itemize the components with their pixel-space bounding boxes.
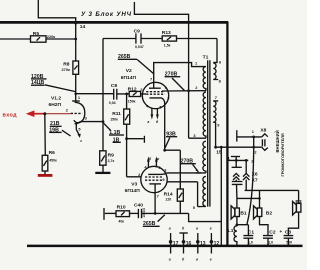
connector wire dots (235, 159, 238, 162)
svg-text:7: 7 (157, 194, 159, 199)
X6 plug chevrons (233, 173, 239, 181)
loudspeaker B1 (231, 206, 239, 219)
speaker cable curve from jack sleeve (247, 149, 254, 225)
node 15 dots (214, 146, 217, 149)
resistor R9 (100, 151, 106, 165)
wire: C40 to R14 column and to node line (142, 212, 189, 214)
svg-text:1,5к: 1,5к (164, 43, 171, 47)
T1 core (208, 60, 210, 206)
T1 primary winding section 3-4 (203, 141, 206, 173)
leader 93В to cathode node (165, 138, 170, 148)
svg-text:16: 16 (186, 241, 192, 247)
frame: right thick vertical (226, 22, 228, 247)
junction dot grid column (125, 137, 128, 140)
svg-text:150к: 150к (128, 100, 136, 104)
V3 pin3 wire to transformer tap 4 (167, 172, 201, 174)
V2 anode bar (149, 87, 161, 89)
wire: C3 to bus (287, 238, 289, 246)
V3 anode bar (148, 173, 160, 175)
voltage label 120В (31, 74, 47, 80)
frame: bottom thick bus (27, 245, 303, 248)
V2 anode wire to transformer pin 1 (154, 63, 201, 89)
capacitor C2 (263, 236, 273, 239)
connector wire (228, 159, 248, 161)
svg-text:R5: R5 (33, 31, 40, 37)
V3 heater pin arrows (144, 156, 161, 170)
double bars below X6 (232, 182, 243, 185)
wire: B+ line from top edge down to transformer tap 3 (134, 2, 188, 138)
V1 pin 5 heater diagonal arrow (76, 130, 79, 135)
wire: feedback column C9-line down through C8 wire to R9 (102, 39, 104, 151)
wire: feedback line down to secondary pin 6 (213, 39, 217, 63)
leader 270В to tap4 wire (193, 164, 199, 172)
X8 sleeve junction dot (252, 146, 255, 149)
resistor R5 (31, 36, 47, 42)
svg-text:В2: В2 (266, 211, 273, 217)
svg-text:13: 13 (200, 241, 206, 247)
T1 primary winding section 1-2 (203, 67, 206, 91)
wire: B3 to C3 (288, 212, 298, 235)
svg-text:C9: C9 (134, 29, 141, 35)
capacitor C9 (136, 33, 141, 43)
inductor L1 (234, 225, 237, 246)
X7 plug chevrons (243, 160, 249, 190)
svg-text:з: з (80, 139, 82, 143)
loudspeaker B3 (293, 201, 301, 215)
X8 tip junction dot (252, 136, 255, 139)
V1 envelope arc (75, 102, 85, 124)
red input arrow (26, 110, 35, 117)
junction dot C2/bus (267, 244, 270, 247)
svg-text:е: е (210, 227, 212, 231)
wire: R9 to ground (102, 165, 104, 172)
wire: R10 to C40 (130, 212, 139, 214)
svg-text:а: а (169, 257, 171, 261)
junction dot screen/B+ column (187, 89, 190, 92)
contact bar left of R10 (103, 208, 105, 220)
V3 cathode lead down to bias line (154, 184, 156, 214)
leader 265В to anode wire (137, 60, 154, 75)
voltage label 93В (166, 132, 177, 138)
contact bar (test point) (143, 136, 145, 143)
tube V1.2 (half of 6Н2П) (66, 95, 88, 143)
resistor R11 (124, 109, 130, 124)
junction dot C8/R12/R11 (125, 93, 128, 96)
svg-text:C3: C3 (285, 229, 292, 235)
wire: R14 to cathode bottom line (179, 201, 181, 213)
wire: R12 to V2 grid (141, 93, 146, 95)
voltage label 21В (50, 121, 62, 127)
svg-text:150к: 150к (110, 118, 118, 122)
T1 secondary winding section 6-8 (213, 63, 216, 80)
svg-text:T1: T1 (203, 54, 209, 60)
resistor R12 (129, 91, 140, 96)
svg-text:В1: В1 (240, 211, 247, 217)
wire: splitter junction down through R11 to V3 grid (126, 94, 128, 109)
resistor R6 (42, 155, 48, 171)
svg-text:R14: R14 (164, 191, 173, 197)
V2 screen wire to transformer pin 2 (162, 90, 201, 92)
bus: top horizontal thick line (0, 21, 228, 24)
tube V2 6П14П envelope (142, 82, 168, 108)
svg-text:ж: ж (156, 157, 160, 161)
svg-text:2,7к: 2,7к (108, 159, 115, 163)
wire: jack tip to sleeve column (253, 137, 255, 147)
red input wire to grid (46, 113, 71, 115)
svg-text:ВНЕШНИЙ: ВНЕШНИЙ (275, 130, 280, 152)
wire: B2 feed from rail A (259, 190, 261, 208)
svg-text:R12: R12 (128, 86, 137, 92)
V3 screen wire to transformer pin 5 (167, 182, 201, 207)
wire: C2 to bus (267, 238, 269, 246)
wire: node 15 column down to bottom bus (220, 147, 222, 246)
svg-text:270к: 270к (62, 67, 70, 72)
V1 cathode arc (74, 120, 81, 122)
svg-text:220к: 220к (47, 34, 55, 39)
T1 primary winding section 4-5 (203, 176, 206, 206)
svg-text:C2: C2 (269, 229, 276, 235)
V2 cathode (150, 98, 165, 104)
svg-text:У 3 Блок УНЧ: У 3 Блок УНЧ (81, 11, 132, 18)
svg-text:V3: V3 (131, 181, 137, 187)
svg-text:7: 7 (215, 95, 217, 100)
svg-text:120: 120 (165, 198, 171, 202)
wire: B3 feed from rail A (298, 190, 300, 203)
svg-text:C40: C40 (134, 202, 143, 208)
leader 265В to bias line (158, 215, 165, 222)
svg-text:а: а (147, 120, 149, 124)
node 14 junction dot (74, 21, 77, 24)
speaker rail B (237, 197, 260, 199)
svg-text:6П14П: 6П14П (121, 75, 137, 81)
wire: cathode node to R14 (165, 150, 181, 189)
X6 lower contact bar (232, 166, 242, 168)
capacitor C3 (284, 236, 294, 239)
wire: top-left entry from top edge to bus node 14 (38, 0, 75, 22)
svg-text:а: а (169, 227, 171, 231)
voltage label 19В (49, 127, 61, 133)
capacitor C1 (243, 236, 253, 239)
resistor R14 (177, 189, 183, 201)
V1 cathode lead down (75, 123, 77, 129)
junction dot cathode node (163, 149, 166, 152)
V3 cathode (149, 183, 161, 185)
voltage label 265В (lower) (143, 221, 160, 227)
X8 jack symbol (262, 134, 268, 151)
resistor R10 (116, 211, 130, 217)
svg-text:12: 12 (214, 241, 220, 247)
svg-text:L1: L1 (228, 228, 234, 234)
voltage label 1,1В (109, 130, 124, 136)
wire: B2 to C2 (260, 217, 269, 236)
svg-text:1000,0: 1000,0 (142, 208, 146, 218)
wire: R5 input line (0, 38, 76, 40)
svg-text:V2: V2 (126, 68, 132, 74)
wire: V1 cathode to R9 column (81, 121, 103, 123)
T1 primary winding section 2-3 (203, 92, 206, 138)
capacitor C40 (138, 209, 141, 218)
junction dot V3 cathode/bias line (154, 212, 157, 215)
wire: B1 to L1/C1 node (236, 217, 238, 225)
junction dot rail B / B2 feed (258, 197, 261, 200)
V3 grid rows (dashed) (145, 177, 164, 180)
leader from 14ЦВ to V1 anode (45, 85, 75, 92)
svg-text:500: 500 (286, 241, 292, 245)
resistor R13 (162, 36, 176, 41)
capacitor C8 coupling (114, 89, 117, 100)
V2 grid rows (dashed) (146, 92, 165, 95)
bus tap 13 (196, 227, 206, 262)
svg-text:6П14П: 6П14П (125, 188, 141, 194)
bus tap 17 (169, 227, 179, 262)
junction dot C3/bus (287, 244, 290, 247)
wire: bus to R8 (75, 22, 77, 61)
bus tap 12 (210, 227, 220, 262)
svg-text:C1: C1 (248, 229, 255, 235)
V3 anode lead to pin3 wire (160, 173, 166, 175)
svg-text:В3: В3 (295, 199, 302, 205)
svg-text:R10: R10 (117, 204, 126, 210)
svg-text:14: 14 (80, 24, 86, 30)
voltage label 265В (118, 54, 137, 60)
junction dot input/R6 (43, 112, 46, 115)
svg-text:450к: 450к (49, 158, 57, 162)
stub wire to contact bar (127, 138, 144, 140)
svg-text:R6: R6 (49, 150, 56, 156)
wire: bar to R10 (105, 212, 116, 214)
junction dot anode/C8 (74, 92, 77, 95)
junction dot C1/bus (247, 244, 250, 247)
wire: R11 to V3 grid (127, 124, 142, 177)
T1 secondary tap wires (213, 63, 218, 148)
wire: C1 to bus (247, 238, 249, 246)
wire: V1 anode to C8 to splitter junction (76, 93, 130, 95)
T1 secondary winding section 7-9 (213, 101, 216, 122)
wire: C9/R13 feedback line (103, 38, 217, 40)
wire: X6 down to speaker rail B (236, 184, 238, 198)
V2 heater pin arrows (146, 104, 162, 125)
svg-text:R9: R9 (108, 152, 115, 158)
voltage label 1В (113, 137, 121, 143)
tube V3 6П14П envelope (141, 166, 167, 192)
voltage label 270В (lower) (180, 159, 195, 165)
svg-text:0,047: 0,047 (135, 45, 144, 49)
svg-text:7: 7 (150, 76, 152, 81)
wire: node to C1 (237, 225, 249, 236)
X6 contact stub (235, 157, 237, 161)
svg-text:вход: вход (3, 113, 18, 119)
svg-text:R11: R11 (112, 111, 121, 117)
svg-text:X8: X8 (260, 128, 266, 134)
ground (R9) (95, 172, 110, 174)
ground (red chassis bar) (38, 174, 53, 177)
X8 tip wire (237, 136, 262, 138)
loudspeaker B2 (254, 206, 262, 219)
leader from 1,1В to cathode junction (104, 123, 111, 130)
V1 anode plate (72, 100, 80, 102)
V2 cathode wire down (164, 104, 166, 151)
wire: R6 to ground (44, 171, 46, 174)
svg-text:C8: C8 (111, 83, 118, 89)
X8 jack contact bar (236, 130, 238, 141)
svg-text:е: е (210, 257, 212, 261)
wire: R8 to V1 anode (75, 74, 77, 101)
junction dot L1/C1 (236, 223, 239, 226)
voltage label 270В (165, 72, 181, 78)
wire: bias line elbow to node 15 column (189, 213, 222, 221)
junction dot cathode/R9 (102, 120, 105, 123)
svg-text:R13: R13 (162, 30, 171, 36)
svg-text:40к: 40к (118, 219, 124, 223)
leader from 19В to cathode lead (62, 130, 71, 136)
T1 primary tap wires (189, 67, 206, 207)
svg-text:1,0: 1,0 (268, 241, 273, 245)
speaker rail A (245, 189, 299, 191)
leader 270В to screen wire (172, 78, 185, 91)
bus tap 16 (179, 227, 191, 262)
wire: grid leak column to R6 (44, 114, 47, 156)
resistor R8 (73, 61, 79, 74)
node 15 wire (216, 146, 262, 148)
svg-text:0,04: 0,04 (109, 101, 116, 105)
svg-text:17: 17 (173, 241, 179, 247)
svg-text:ГРОМКОГОВОРИТЕЛЯ: ГРОМКОГОВОРИТЕЛЯ (280, 133, 285, 176)
wire: B1 feed (236, 198, 238, 208)
V1 grid (dashed) (71, 112, 83, 114)
svg-text:V1.2: V1.2 (51, 95, 61, 101)
svg-text:+: + (279, 230, 282, 235)
X6 upper contact bar (231, 156, 240, 158)
svg-text:6Н2П: 6Н2П (49, 102, 62, 108)
junction dot R5/R8 column (74, 38, 77, 41)
voltage label 14ЦВ (31, 80, 45, 86)
